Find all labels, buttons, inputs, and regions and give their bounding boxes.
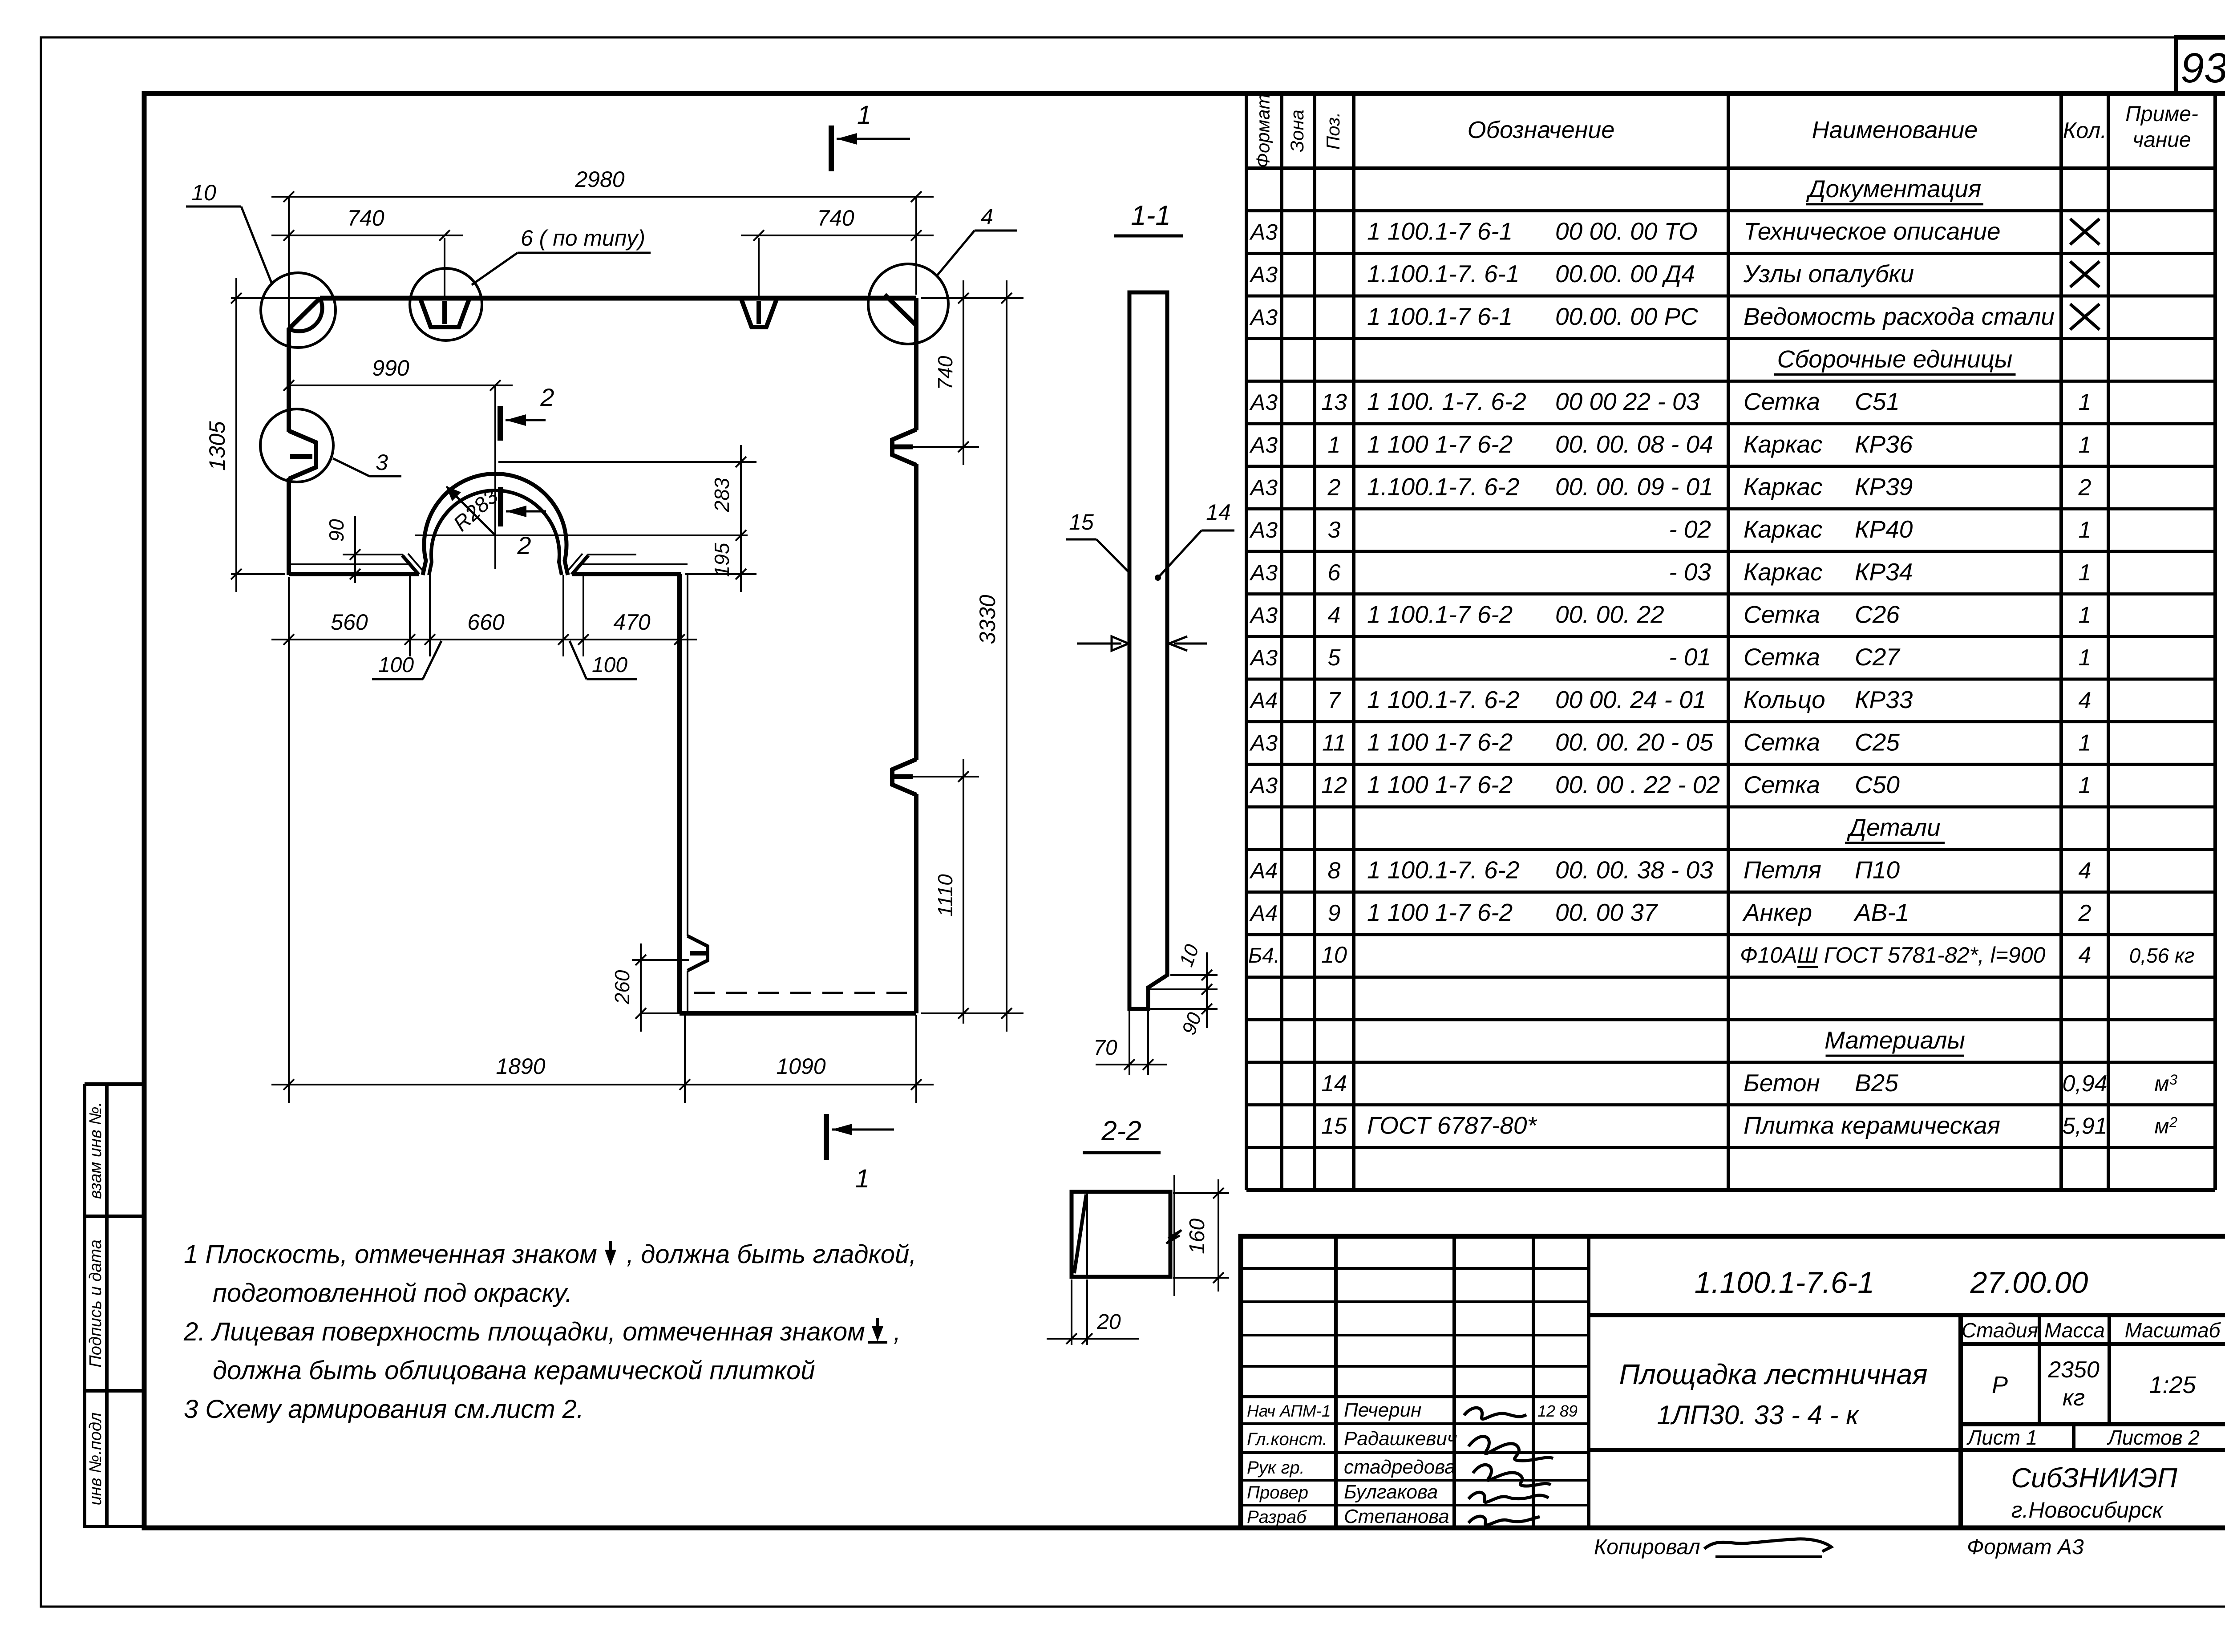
- signatures scribbles: [1464, 1408, 1553, 1525]
- row 14 Сетка С25: [1249, 729, 2091, 756]
- svg-text:00. 00 . 22 - 02: 00. 00 . 22 - 02: [1555, 771, 1720, 798]
- notes text block: [183, 1240, 916, 1424]
- svg-text:2980: 2980: [574, 167, 624, 192]
- row 4 Ведомость расхода стали: [1249, 303, 2055, 330]
- svg-text:1 100.1-7. 6-2: 1 100.1-7. 6-2: [1367, 686, 1519, 713]
- svg-text:А4: А4: [1249, 858, 1278, 883]
- svg-text:14: 14: [1321, 1071, 1347, 1097]
- svg-text:Лист 1: Лист 1: [1966, 1426, 2038, 1449]
- svg-text:С27: С27: [1855, 643, 1901, 671]
- svg-text:Поз.: Поз.: [1323, 112, 1343, 150]
- svg-text:1: 1: [2079, 773, 2091, 798]
- svg-text:КР34: КР34: [1855, 558, 1913, 586]
- svg-text:Сетка: Сетка: [1744, 388, 1820, 415]
- svg-text:Сетка: Сетка: [1744, 643, 1820, 671]
- svg-text:2: 2: [2078, 900, 2091, 926]
- svg-text:00 00 22 - 03: 00 00 22 - 03: [1555, 388, 1700, 415]
- svg-text:1: 1: [2079, 389, 2091, 415]
- svg-text:1 100.1-7 6-1: 1 100.1-7 6-1: [1367, 218, 1513, 245]
- svg-text:1ЛП30. 33 - 4 - к: 1ЛП30. 33 - 4 - к: [1657, 1400, 1860, 1430]
- svg-text:1110: 1110: [934, 874, 957, 917]
- label 10 with leader: [186, 180, 272, 285]
- svg-text:СибЗНИИЭП: СибЗНИИЭП: [2011, 1463, 2177, 1494]
- svg-text:4: 4: [1328, 603, 1341, 628]
- svg-text:2. Лицевая поверхность площадк: 2. Лицевая поверхность площадки, отмечен…: [183, 1317, 865, 1346]
- svg-text:КР40: КР40: [1855, 515, 1913, 543]
- title block grid: [1241, 1236, 2225, 1528]
- dimension 740 left: [271, 206, 463, 241]
- svg-text:5: 5: [1328, 645, 1341, 671]
- svg-text:должна быть облицована керамич: должна быть облицована керамической плит…: [213, 1356, 815, 1385]
- svg-text:00.00. 00 Д4: 00.00. 00 Д4: [1555, 260, 1695, 287]
- svg-text:1.100.1-7. 6-2: 1.100.1-7. 6-2: [1367, 473, 1519, 501]
- svg-text:00.00. 00 РС: 00.00. 00 РС: [1555, 303, 1699, 330]
- svg-text:1 100 1-7 6-2: 1 100 1-7 6-2: [1367, 899, 1513, 926]
- label Подпись и дата: [86, 1239, 105, 1367]
- svg-text:00. 00. 09 - 01: 00. 00. 09 - 01: [1555, 473, 1713, 501]
- radius R283 leader: [446, 484, 503, 536]
- svg-text:С51: С51: [1855, 388, 1900, 415]
- svg-text:Печерин: Печерин: [1344, 1399, 1421, 1421]
- svg-text:- 01: - 01: [1669, 643, 1711, 671]
- svg-text:1-1: 1-1: [1131, 200, 1171, 231]
- svg-text:10: 10: [191, 180, 216, 205]
- label 15 with leader: [1066, 510, 1129, 572]
- label 14 with leader: [1155, 500, 1234, 581]
- svg-text:1: 1: [2079, 432, 2091, 458]
- svg-text:Зона: Зона: [1286, 109, 1307, 152]
- svg-text:Формат А3: Формат А3: [1967, 1535, 2084, 1559]
- svg-text:А4: А4: [1249, 688, 1278, 713]
- plan: interior vertical edge double line with keyway: [680, 574, 708, 1013]
- svg-text:1 100.1-7 6-2: 1 100.1-7 6-2: [1367, 601, 1513, 628]
- svg-text:0,94: 0,94: [2062, 1071, 2107, 1097]
- plan: left edge with keyway: [289, 197, 316, 575]
- row 16 Детали: [1845, 814, 1945, 843]
- svg-text:Плитка керамическая: Плитка керамическая: [1744, 1112, 2000, 1139]
- svg-text:Масса: Масса: [2044, 1319, 2105, 1342]
- plan: detail circle 4: [868, 264, 948, 344]
- svg-text:3330: 3330: [975, 595, 1000, 644]
- svg-text:4: 4: [2079, 858, 2091, 884]
- svg-text:1 100 1-7 6-2: 1 100 1-7 6-2: [1367, 771, 1513, 798]
- svg-text:,: ,: [894, 1317, 901, 1346]
- svg-text:Р: Р: [1992, 1372, 2008, 1398]
- section 1-1 dimensions 10 90 70: [1093, 941, 1218, 1075]
- plan: hidden dashed line above bottom edge: [694, 992, 912, 994]
- svg-text:Б4.: Б4.: [1248, 944, 1280, 968]
- row 19 стержень Ф10АШ: [1248, 942, 2195, 968]
- svg-text:1.100.1-7. 6-1: 1.100.1-7. 6-1: [1367, 260, 1519, 287]
- svg-text:3 Схему армирования см.лист 2: 3 Схему армирования см.лист 2.: [184, 1395, 584, 1424]
- section 1-1 title: [1114, 200, 1183, 236]
- label 6 (по типу) with leader: [472, 226, 651, 285]
- svg-text:1090: 1090: [776, 1054, 825, 1079]
- row 7 Каркас КР36: [1249, 430, 2091, 458]
- spec table header texts: [1253, 94, 2198, 168]
- svg-text:2350: 2350: [2047, 1357, 2100, 1383]
- section 1-1 profile: [1129, 292, 1167, 1009]
- svg-text:Разраб: Разраб: [1247, 1507, 1307, 1527]
- svg-text:Узлы опалубки: Узлы опалубки: [1743, 260, 1914, 287]
- svg-text:взам инв №.: взам инв №.: [86, 1102, 105, 1199]
- svg-text:Булгакова: Булгакова: [1344, 1481, 1438, 1503]
- svg-text:12 89: 12 89: [1537, 1402, 1578, 1420]
- row 1 Документация: [1806, 175, 1983, 204]
- document number 1.100.1-7.6-1 27.00.00: [1695, 1266, 2088, 1300]
- svg-text:3: 3: [376, 450, 388, 475]
- svg-text:А3: А3: [1249, 305, 1278, 330]
- dimension 195 vertical: [685, 543, 756, 592]
- svg-text:подготовленной под окраску.: подготовленной под окраску.: [213, 1279, 572, 1308]
- label 3 with leader: [333, 450, 401, 476]
- svg-text:560: 560: [331, 610, 368, 635]
- row 13 Кольцо КР33: [1249, 686, 2091, 713]
- svg-text:0,56 кг: 0,56 кг: [2129, 944, 2195, 967]
- svg-text:27.00.00: 27.00.00: [1970, 1266, 2088, 1300]
- svg-text:С50: С50: [1855, 771, 1900, 798]
- dimension 283 vertical: [498, 445, 756, 552]
- svg-text:А3: А3: [1249, 390, 1278, 415]
- svg-text:Ф10АШ ГОСТ 5781-82*, l=900: Ф10АШ ГОСТ 5781-82*, l=900: [1740, 943, 2046, 968]
- dimension 2980 top: [271, 167, 934, 295]
- svg-text:195: 195: [710, 543, 733, 577]
- svg-text:9: 9: [1328, 900, 1341, 926]
- quantity cross row 2: [2070, 219, 2100, 245]
- svg-text:00. 00. 38 - 03: 00. 00. 38 - 03: [1555, 856, 1713, 884]
- page number box 93: [2176, 37, 2225, 93]
- svg-text:1890: 1890: [496, 1054, 545, 1079]
- svg-text:470: 470: [613, 610, 651, 635]
- surface finish arrows on section 1-1: [1077, 636, 1207, 651]
- svg-text:15: 15: [1069, 510, 1094, 534]
- svg-text:А4: А4: [1249, 901, 1278, 926]
- Стадия Масса Масштаб headers: [1962, 1319, 2221, 1342]
- row 15 Сетка С50: [1249, 771, 2091, 798]
- note symbol anchor down arrow with base: [868, 1318, 887, 1342]
- svg-text:1: 1: [2079, 645, 2091, 671]
- section mark 2 bottom: [501, 487, 546, 559]
- svg-text:ГОСТ 6787-80*: ГОСТ 6787-80*: [1367, 1112, 1537, 1139]
- svg-text:Бетон: Бетон: [1744, 1069, 1820, 1097]
- svg-text:А3: А3: [1249, 560, 1278, 585]
- note symbol down arrow: [605, 1241, 616, 1266]
- svg-text:Петля: Петля: [1744, 856, 1821, 884]
- svg-text:Ведомость расхода стали: Ведомость расхода стали: [1744, 303, 2055, 330]
- svg-text:Радашкевич: Радашкевич: [1344, 1428, 1457, 1450]
- section 2-2 title: [1083, 1116, 1161, 1153]
- quantity cross row 4: [2070, 304, 2100, 330]
- svg-text:1:25: 1:25: [2149, 1372, 2196, 1398]
- svg-text:Копировал: Копировал: [1594, 1535, 1700, 1559]
- svg-text:00. 00. 22: 00. 00. 22: [1555, 601, 1664, 628]
- svg-text:Площадка лестничная: Площадка лестничная: [1619, 1358, 1927, 1390]
- row 12 Сетка С27: [1249, 643, 2091, 671]
- row 10 Каркас КР34: [1249, 558, 2091, 586]
- label Взам инв №: [86, 1102, 105, 1199]
- label 100 left with leader: [372, 641, 441, 679]
- dimension 1305 vertical: [205, 278, 285, 592]
- svg-text:1: 1: [2079, 730, 2091, 756]
- label 4 with leader: [937, 204, 1017, 276]
- plan: arch opening R283 double arc: [423, 474, 568, 575]
- dimension 740 right side vertical: [913, 280, 1023, 465]
- svg-text:6 ( по типу): 6 ( по типу): [521, 226, 645, 251]
- section 2-2 profile with tile layer: [1072, 1192, 1170, 1277]
- title Площадка лестничная 1ЛП30.33-4-к: [1619, 1358, 1927, 1430]
- svg-text:4: 4: [2079, 688, 2091, 713]
- svg-text:А3: А3: [1249, 645, 1278, 670]
- svg-text:3: 3: [2169, 1072, 2177, 1088]
- svg-text:- 03: - 03: [1669, 558, 1711, 586]
- svg-text:С25: С25: [1855, 729, 1900, 756]
- svg-text:А3: А3: [1249, 220, 1278, 245]
- svg-text:Нач АПМ-1: Нач АПМ-1: [1247, 1402, 1331, 1420]
- svg-text:А3: А3: [1249, 731, 1278, 756]
- svg-text:1: 1: [1328, 432, 1341, 458]
- svg-text:100: 100: [592, 653, 627, 677]
- svg-text:100: 100: [378, 653, 414, 677]
- svg-text:А3: А3: [1249, 603, 1278, 628]
- svg-text:15: 15: [1321, 1113, 1347, 1139]
- row 22 Бетон В25: [1321, 1069, 2108, 1097]
- row 18 Анкер АВ-1: [1249, 899, 2091, 926]
- label 100 right with leader: [570, 641, 637, 679]
- svg-text:Приме-: Приме-: [2125, 102, 2198, 126]
- svg-text:740: 740: [347, 206, 384, 231]
- svg-text:Гл.конст.: Гл.конст.: [1247, 1429, 1327, 1449]
- left margin stamp boxes: [85, 1084, 144, 1528]
- plan: detail circle 6: [410, 268, 482, 340]
- label Инв № подл: [86, 1413, 105, 1506]
- svg-text:чание: чание: [2132, 128, 2191, 152]
- svg-text:инв №.подл: инв №.подл: [86, 1413, 105, 1506]
- svg-text:00. 00 37: 00. 00 37: [1555, 899, 1659, 926]
- svg-text:283: 283: [710, 478, 733, 512]
- row 5 Сборочные единицы: [1774, 345, 2016, 375]
- plan: plate top edge: [231, 296, 916, 301]
- svg-text:11: 11: [1322, 730, 1346, 756]
- svg-text:1 100. 1-7. 6-2: 1 100. 1-7. 6-2: [1367, 388, 1526, 415]
- svg-text:6: 6: [1328, 560, 1341, 586]
- row 11 Сетка С26: [1249, 601, 2091, 628]
- section mark 2 top: [500, 383, 554, 441]
- svg-text:А3: А3: [1249, 262, 1278, 287]
- svg-text:5,91: 5,91: [2062, 1113, 2107, 1139]
- svg-text:Сборочные единицы: Сборочные единицы: [1777, 345, 2013, 373]
- row 6 Сетка С51: [1249, 388, 2091, 415]
- svg-text:740: 740: [817, 206, 854, 231]
- specification table grid: [1246, 93, 2215, 1190]
- svg-text:660: 660: [467, 610, 505, 635]
- svg-text:Анкер: Анкер: [1742, 899, 1812, 926]
- dimension 3330 vertical: [921, 280, 1023, 1032]
- plan: bottom edge of plate: [680, 1011, 916, 1016]
- svg-text:С26: С26: [1855, 601, 1900, 628]
- svg-text:Каркас: Каркас: [1744, 515, 1823, 543]
- svg-text:кг: кг: [2063, 1385, 2085, 1411]
- svg-text:КР33: КР33: [1855, 686, 1913, 713]
- svg-text:160: 160: [1185, 1219, 1209, 1254]
- svg-text:8: 8: [1328, 858, 1341, 884]
- svg-text:2: 2: [2169, 1114, 2177, 1130]
- svg-text:990: 990: [372, 356, 409, 381]
- svg-text:1 Плоскость, отмеченная знаком: 1 Плоскость, отмеченная знаком: [184, 1240, 597, 1269]
- svg-text:А3: А3: [1249, 518, 1278, 543]
- svg-text:2: 2: [2078, 475, 2091, 501]
- section mark 1 top: [831, 101, 910, 171]
- svg-text:2: 2: [540, 383, 554, 411]
- svg-text:м: м: [2155, 1115, 2169, 1138]
- svg-text:- 02: - 02: [1669, 515, 1711, 543]
- svg-text:А3: А3: [1249, 475, 1278, 500]
- row 21 Материалы: [1824, 1026, 1965, 1056]
- svg-text:93: 93: [2180, 45, 2225, 92]
- dimension 90 at arch base: [325, 516, 360, 583]
- section mark 1 bottom: [826, 1114, 894, 1193]
- svg-text:Провер: Провер: [1247, 1483, 1308, 1502]
- svg-text:Техническое описание: Техническое описание: [1744, 218, 2001, 245]
- row 3 Узлы опалубки: [1249, 260, 1914, 287]
- section 2-2 dimension 160: [1166, 1175, 1229, 1296]
- svg-text:Кол.: Кол.: [2063, 118, 2107, 143]
- svg-text:Сетка: Сетка: [1744, 729, 1820, 756]
- svg-text:Обозначение: Обозначение: [1468, 117, 1615, 143]
- svg-text:10: 10: [1321, 942, 1347, 968]
- title block outer border: [1241, 1236, 2225, 1528]
- svg-text:, должна быть гладкой,: , должна быть гладкой,: [627, 1240, 916, 1269]
- dimension chain 560 660 470 with 100s: [271, 575, 697, 656]
- svg-text:Наименование: Наименование: [1812, 117, 1978, 143]
- svg-text:м: м: [2155, 1072, 2169, 1096]
- svg-text:Каркас: Каркас: [1744, 558, 1823, 586]
- section 2-2 dimension 20: [1047, 1279, 1139, 1345]
- plan: detail circle 3: [260, 409, 333, 482]
- svg-text:7: 7: [1328, 688, 1342, 713]
- Формат А3 label: [1967, 1535, 2084, 1559]
- dimension 990: [283, 356, 513, 463]
- row 8 Каркас КР39: [1249, 473, 2091, 501]
- svg-text:П10: П10: [1855, 856, 1900, 884]
- stage P mass 2350 кг scale 1:25: [1992, 1357, 2197, 1411]
- svg-text:Кольцо: Кольцо: [1744, 686, 1825, 713]
- svg-text:1 100 1-7 6-2: 1 100 1-7 6-2: [1367, 729, 1513, 756]
- svg-text:1 100.1-7. 6-2: 1 100.1-7. 6-2: [1367, 856, 1519, 884]
- svg-text:14: 14: [1206, 500, 1231, 525]
- svg-text:А3: А3: [1249, 433, 1278, 458]
- dimension 1890 1090 bottom: [271, 577, 934, 1103]
- svg-text:4: 4: [2079, 942, 2091, 968]
- svg-text:Материалы: Материалы: [1824, 1026, 1965, 1054]
- plan: right edge with keyways: [892, 298, 916, 1013]
- row 17 Петля П10: [1249, 856, 2091, 884]
- plan: loop notch B: [741, 238, 777, 327]
- svg-text:2: 2: [1327, 475, 1341, 501]
- svg-text:4: 4: [981, 204, 993, 229]
- svg-text:1: 1: [857, 101, 871, 130]
- svg-text:70: 70: [1093, 1036, 1117, 1060]
- dimension 1110 vertical: [913, 759, 979, 1024]
- svg-text:1 100.1-7 6-1: 1 100.1-7 6-1: [1367, 303, 1513, 330]
- svg-text:стадредова: стадредова: [1344, 1456, 1456, 1478]
- dimension 740 right top: [741, 206, 934, 241]
- svg-text:Сетка: Сетка: [1744, 601, 1820, 628]
- svg-text:00 00. 24 - 01: 00 00. 24 - 01: [1555, 686, 1706, 713]
- plan: loop notch A: [420, 238, 469, 327]
- svg-text:А3: А3: [1249, 773, 1278, 798]
- svg-text:1 100 1-7 6-2: 1 100 1-7 6-2: [1367, 430, 1513, 458]
- svg-text:Сетка: Сетка: [1744, 771, 1820, 798]
- svg-text:1: 1: [2079, 517, 2091, 543]
- svg-text:Подпись и дата: Подпись и дата: [86, 1239, 105, 1367]
- svg-text:Листов 2: Листов 2: [2107, 1426, 2200, 1449]
- arch centerlines: [415, 463, 748, 569]
- quantity cross row 3: [2070, 261, 2100, 287]
- svg-text:АВ-1: АВ-1: [1853, 899, 1909, 926]
- svg-text:Масштаб: Масштаб: [2125, 1319, 2221, 1342]
- svg-text:3: 3: [1328, 517, 1341, 543]
- svg-text:90: 90: [325, 519, 348, 542]
- svg-text:740: 740: [934, 356, 957, 390]
- svg-text:1.100.1-7.6-1: 1.100.1-7.6-1: [1695, 1266, 1875, 1300]
- svg-text:260: 260: [611, 970, 634, 1004]
- СибЗНИИЭП г.Новосибирск: [2011, 1463, 2177, 1522]
- svg-text:Документация: Документация: [1806, 175, 1982, 202]
- svg-text:Каркас: Каркас: [1744, 430, 1823, 458]
- svg-text:Степанова: Степанова: [1344, 1506, 1449, 1527]
- svg-text:КР39: КР39: [1855, 473, 1913, 501]
- svg-text:Формат: Формат: [1253, 94, 1274, 168]
- svg-text:г.Новосибирск: г.Новосибирск: [2011, 1498, 2164, 1522]
- svg-text:В25: В25: [1855, 1069, 1898, 1097]
- plan: detail circle 10: [261, 273, 336, 348]
- svg-text:1: 1: [855, 1164, 870, 1193]
- svg-text:Детали: Детали: [1846, 814, 1940, 841]
- row 9 Каркас КР40: [1249, 515, 2091, 543]
- dimension 260 vertical: [611, 943, 689, 1032]
- svg-text:1: 1: [2079, 603, 2091, 628]
- svg-text:КР36: КР36: [1855, 430, 1913, 458]
- Копировал signature line: [1594, 1535, 1831, 1559]
- svg-text:20: 20: [1096, 1310, 1121, 1334]
- plan: bottom edge of upper-left portion with chamfer lines: [289, 554, 688, 575]
- svg-text:1305: 1305: [205, 421, 230, 470]
- svg-text:00. 00. 08 - 04: 00. 00. 08 - 04: [1555, 430, 1713, 458]
- svg-text:12: 12: [1321, 773, 1347, 798]
- signature table rows: [1247, 1399, 1578, 1527]
- svg-text:Каркас: Каркас: [1744, 473, 1823, 501]
- svg-text:00. 00. 20 - 05: 00. 00. 20 - 05: [1555, 729, 1713, 756]
- svg-text:13: 13: [1321, 389, 1347, 415]
- row 2 Техническое описание: [1249, 218, 2001, 245]
- svg-text:00 00. 00 ТО: 00 00. 00 ТО: [1555, 218, 1698, 245]
- svg-text:Рук гр.: Рук гр.: [1247, 1458, 1305, 1478]
- Лист 1 Листов 2: [1966, 1426, 2200, 1449]
- svg-text:2-2: 2-2: [1101, 1116, 1141, 1146]
- row 23 Плитка керамическая: [1321, 1112, 2108, 1139]
- svg-text:Стадия: Стадия: [1962, 1319, 2038, 1342]
- svg-text:1: 1: [2079, 560, 2091, 586]
